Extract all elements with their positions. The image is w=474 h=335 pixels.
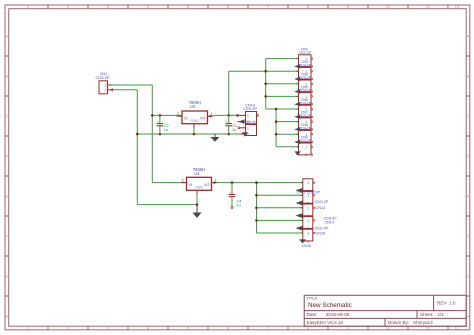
svg-text:E: E [467, 193, 470, 198]
connector CN1 CDS-2P [96, 72, 113, 94]
connector CN4 CDS-2P [297, 73, 313, 95]
ground flag on CN6 pin2 [294, 115, 300, 119]
svg-text:1: 1 [307, 194, 309, 198]
svg-text:1: 1 [247, 127, 249, 131]
svg-text:1: 1 [307, 181, 309, 185]
junction U2 output branch [227, 114, 230, 117]
capacitor C1 [226, 115, 238, 134]
svg-text:1u: 1u [237, 204, 241, 208]
svg-text:CDS-2P: CDS-2P [315, 227, 329, 231]
junction C2 top tap [159, 114, 162, 117]
svg-text:D: D [467, 153, 470, 158]
junction U2 GND rail [193, 133, 196, 136]
wire VIN vertical bus [151, 85, 153, 183]
junction bus2 CN8 [275, 133, 278, 136]
svg-text:A: A [467, 33, 470, 38]
svg-text:+: + [226, 120, 228, 124]
wire to CN5 pin1 [266, 95, 298, 97]
svg-text:CDS-2P: CDS-2P [299, 51, 312, 55]
svg-text:B: B [5, 73, 8, 78]
svg-text:CDS-2P: CDS-2P [299, 76, 312, 80]
wire to CN9 pin1 [276, 146, 298, 148]
svg-text:CN12 CDS-2P: CN12 CDS-2P [297, 190, 321, 194]
ground flag on CN5 pin2 [294, 102, 300, 106]
svg-text:12: 12 [455, 4, 460, 9]
svg-text:CN16: CN16 [302, 244, 312, 248]
ground flag on CN10 pin2 [238, 119, 244, 123]
junction GND vertical upper rail [136, 133, 139, 136]
junction C2 bottom [159, 133, 162, 136]
svg-text:VO: VO [200, 116, 206, 120]
svg-text:G: G [5, 273, 8, 278]
svg-text:U2: U2 [190, 104, 196, 109]
junction U1 GND rail [196, 203, 199, 206]
svg-text:2: 2 [182, 178, 184, 182]
svg-text:CDS-2P: CDS-2P [299, 139, 312, 143]
svg-text:+: + [229, 191, 231, 195]
voltage regulator U2 7805H [177, 100, 214, 128]
connector CN14 CDS-2P [301, 204, 315, 218]
ground flag on CN16 pin2 pointing down [299, 239, 306, 243]
svg-text:1: 1 [307, 232, 309, 236]
junction CN10 pin1 tap [236, 114, 239, 117]
svg-text:CDS-2P: CDS-2P [315, 200, 329, 204]
svg-text:GND: GND [191, 119, 199, 123]
wire to CN2 pin1 [266, 58, 298, 60]
frame ruler ticks left and right [5, 56, 470, 296]
connector CN8 CDS-2P [297, 123, 313, 145]
connector CN9 CDS-2P [297, 136, 313, 158]
svg-text:2: 2 [307, 239, 309, 243]
svg-text:1: 1 [307, 219, 309, 223]
title block outline [304, 295, 466, 326]
svg-text:CN14: CN14 [325, 220, 334, 224]
svg-text:CDS-2P: CDS-2P [299, 64, 312, 68]
svg-text:1u: 1u [232, 128, 236, 132]
wire CN1 pin1 to vertical VIN [111, 84, 153, 86]
wire to CN8 pin1 [276, 133, 298, 135]
svg-text:Drawn By:: Drawn By: [388, 320, 409, 325]
svg-text:VO: VO [204, 183, 210, 187]
wire to CN13 pin1 [257, 194, 303, 196]
wire to CN6 pin1 [266, 108, 298, 110]
voltage regulator U1 7805H [181, 167, 217, 195]
title block row divider 1 [304, 310, 466, 312]
junction bus1 CN3 [264, 70, 267, 73]
svg-text:E: E [5, 193, 8, 198]
svg-text:CDS-2P: CDS-2P [243, 107, 257, 111]
connector CN3 CDS-2P [297, 60, 313, 82]
svg-text:D: D [5, 153, 8, 158]
svg-text:CN13: CN13 [316, 206, 326, 210]
svg-text:CDS-2P: CDS-2P [299, 127, 312, 131]
wire VIN to U1 input [152, 182, 186, 184]
junction C1 bottom [227, 133, 230, 136]
capacitor C4 [229, 183, 242, 209]
connector CN15 CDS-2P [301, 217, 315, 231]
ground flag on CN7 pin2 [294, 127, 300, 131]
wire U2 GND pin to rail [193, 124, 195, 134]
svg-text:1: 1 [105, 84, 107, 88]
svg-text:CDS-2P: CDS-2P [243, 120, 257, 124]
ground symbol near U1 [193, 205, 202, 218]
ground flag on CN3 pin2 [294, 77, 300, 81]
svg-text:GND: GND [195, 186, 203, 190]
junction bus3 CN14 [255, 207, 258, 210]
junction bus3 CN13 [255, 194, 258, 197]
label CN14 CDS-2P [324, 217, 338, 225]
svg-text:G: G [466, 273, 469, 278]
wire U2 output to top bus [229, 70, 266, 72]
ground flag on CN14 pin2 [296, 213, 303, 218]
wire lower ground rail [137, 204, 197, 206]
ground flag on CN4 pin2 [294, 90, 300, 94]
junction bus2 CN7 [275, 120, 278, 123]
title block row divider 2 [304, 317, 466, 319]
svg-text:1u: 1u [164, 128, 168, 132]
svg-text:CN15: CN15 [316, 232, 326, 236]
connector CN13 CDS-2P [301, 191, 315, 205]
wire bottom stack bus [256, 183, 258, 233]
wire to CN7 pin1 [276, 121, 298, 123]
junction bus1 CN5 [264, 95, 267, 98]
wire GND vertical bus [136, 90, 138, 205]
ground flag on CN9 pin2 pointing down [294, 151, 300, 155]
svg-text:2: 2 [105, 88, 107, 92]
ground flag on CN11 pin2 [242, 132, 248, 136]
svg-text:TITLE:: TITLE: [306, 296, 318, 301]
junction bottom bus top [255, 181, 258, 184]
wire upper ground rail [137, 133, 245, 135]
svg-text:EasyEDA V5.6.15: EasyEDA V5.6.15 [307, 320, 344, 325]
wire U2 output rail [213, 114, 238, 116]
ground flag on CN8 pin2 [294, 140, 300, 144]
connector CN16 CDS-2P [301, 229, 315, 243]
svg-text:1: 1 [305, 145, 307, 149]
wire top stack bus 1 [265, 59, 267, 109]
junction bus2 top [275, 108, 278, 111]
ground flag on CN13 pin2 [296, 201, 303, 206]
label CN13 CDS-2P [315, 200, 329, 210]
svg-text:VI: VI [184, 116, 188, 120]
ground flag on CN12 pin2 [296, 188, 303, 193]
wire to CN14 pin1 [257, 207, 303, 209]
svg-text:CDS-2P: CDS-2P [299, 89, 312, 93]
svg-text:VI: VI [189, 183, 193, 187]
svg-text:CDS-2P: CDS-2P [96, 76, 110, 80]
ground symbol near U2 [211, 134, 220, 142]
svg-text:U1: U1 [194, 171, 200, 176]
svg-text:H: H [467, 313, 470, 318]
svg-text:Sheet:: Sheet: [420, 312, 433, 317]
svg-text:Shreya13: Shreya13 [413, 320, 433, 325]
svg-text:2018-08-05: 2018-08-05 [326, 312, 350, 317]
svg-text:+: + [157, 120, 159, 124]
svg-text:CDS-2P: CDS-2P [299, 114, 312, 118]
capacitor C2 [157, 115, 169, 134]
wire CN1 pin2 to vertical GND [111, 89, 138, 91]
wire U2 output up branch [228, 71, 230, 115]
ground flag on CN2 pin2 [294, 64, 300, 68]
connector CN12 CDS-2P [301, 179, 315, 193]
connector CN5 CDS-2P [297, 85, 313, 107]
wire top stack bus 2 [275, 109, 277, 147]
title block Sheet cell divider [416, 311, 418, 319]
svg-text:C: C [467, 113, 470, 118]
label CN15 CDS-2P [315, 227, 329, 236]
wire U1 output rail [217, 182, 302, 184]
svg-text:New Schematic: New Schematic [308, 302, 352, 309]
junction VIN-U2 input [151, 114, 154, 117]
connector CN10 CDS-2P [238, 103, 259, 124]
ground flag on CN15 pin2 [296, 226, 303, 231]
wire VIN to U2 input [152, 114, 182, 116]
svg-text:10: 10 [386, 4, 391, 9]
connector CN6 CDS-2P [297, 98, 313, 120]
wire to CN4 pin1 [266, 83, 298, 85]
wire to CN3 pin1 [266, 70, 298, 72]
svg-text:1/1: 1/1 [438, 312, 445, 317]
svg-text:H: H [5, 313, 8, 318]
svg-text:2: 2 [177, 112, 179, 116]
wire U1 GND pin to rail [196, 190, 198, 204]
wire to CN15 pin1 [257, 219, 303, 221]
svg-text:2: 2 [305, 153, 307, 157]
svg-text:A: A [5, 33, 8, 38]
connector CN2 CDS-2P [297, 48, 313, 70]
junction bus1 CN4 [264, 83, 267, 86]
svg-text:1: 1 [307, 206, 309, 210]
junction C4 tap [231, 181, 234, 184]
title block DrawnBy cell divider [384, 318, 386, 326]
title block REV cell divider [433, 295, 435, 310]
svg-text:Date:: Date: [307, 312, 318, 317]
svg-text:1: 1 [247, 114, 249, 118]
svg-text:CDS-2P: CDS-2P [299, 101, 312, 105]
svg-text:C: C [5, 113, 8, 118]
wire to CN16 pin1 [257, 232, 303, 234]
connector CN11 CDS-2P [238, 120, 257, 136]
junction bus3 CN15 [255, 219, 258, 222]
svg-text:REV 1.0: REV 1.0 [437, 300, 456, 305]
connector CN7 CDS-2P [297, 111, 313, 133]
svg-text:B: B [467, 73, 470, 78]
